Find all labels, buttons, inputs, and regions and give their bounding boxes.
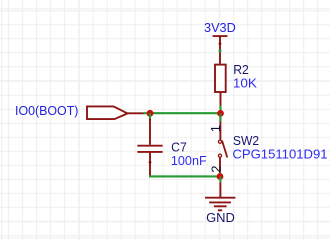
wire top horizontal (150, 112, 221, 114)
ground bar 3 (214, 205, 227, 207)
svg-text:CPG151101D91: CPG151101D91 (232, 147, 327, 162)
junction dot left (147, 110, 154, 117)
svg-text:100nF: 100nF (171, 153, 207, 168)
switch SW2 pin 1 (219, 113, 221, 139)
resistor R2 body (215, 65, 226, 92)
ground bar 4 (218, 209, 222, 211)
connection dot (power to resistor) (219, 49, 222, 52)
wire (green segment below left junction) (149, 113, 151, 120)
junction dot right (217, 110, 224, 117)
switch SW2 top contact circle (218, 140, 221, 143)
wire bottom horizontal (149, 175, 220, 177)
svg-text:2: 2 (208, 165, 223, 172)
power flag 3V3D pin (219, 36, 221, 44)
ground pin green segment (219, 177, 221, 183)
capacitor C7 top pin (149, 119, 151, 145)
ground pin (219, 182, 221, 198)
switch SW2 pin 2 green segment (219, 173, 221, 177)
capacitor C7 bottom pin (149, 152, 151, 177)
switch SW2 pin 2 (219, 157, 221, 176)
ground bar 2 (209, 201, 231, 203)
svg-text:1: 1 (208, 125, 223, 132)
power flag 3V3D bar (213, 35, 228, 37)
resistor R2 top pin (219, 44, 221, 64)
capacitor C7 top plate (137, 145, 162, 147)
switch SW2 bottom contact circle (218, 154, 221, 157)
junction dot bottom (217, 173, 224, 180)
net flag IO0(BOOT) pennant outline (87, 106, 128, 119)
power pin endpoint dot (219, 42, 222, 45)
resistor R2 bottom pin (220, 92, 222, 106)
net flag pin (128, 112, 144, 114)
switch SW2 pin 1 green segment (219, 113, 221, 121)
ground bar 1 (205, 197, 235, 199)
wire (green segment above right junction) (219, 106, 221, 114)
svg-text:IO0(BOOT): IO0(BOOT) (15, 103, 78, 118)
capacitor C7 bottom plate (137, 151, 162, 153)
svg-text:GND: GND (206, 210, 235, 225)
switch SW2 lever (222, 141, 227, 158)
wire (green segment into left junction) (144, 112, 151, 114)
svg-text:3V3D: 3V3D (204, 20, 236, 35)
svg-text:10K: 10K (233, 76, 257, 91)
capacitor pin endpoint dot (149, 161, 152, 164)
